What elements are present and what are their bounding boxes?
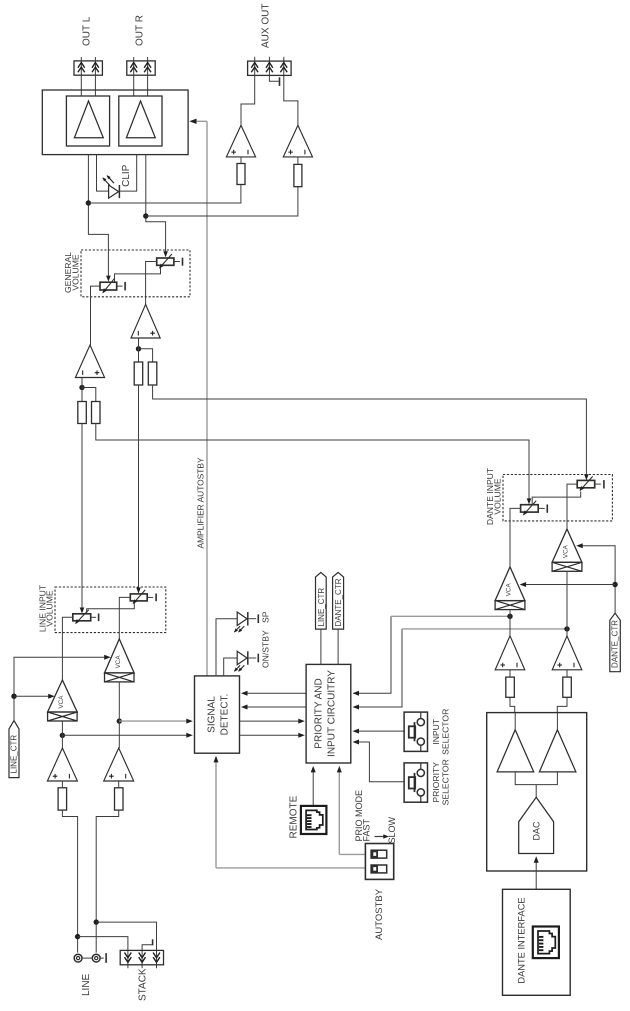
svg-text:AMPLIFIER AUTOSTBY: AMPLIFIER AUTOSTBY	[196, 457, 206, 548]
wire stack pin3	[96, 922, 156, 968]
line input volume group box	[55, 587, 166, 633]
connector LINE jack R	[92, 954, 100, 962]
svg-text:INPUT: INPUT	[431, 718, 441, 745]
pot LV2 terminal	[147, 594, 156, 602]
wire dante to dac	[535, 859, 537, 890]
junction amp R input	[143, 213, 148, 218]
arrow into pot DV1	[527, 498, 532, 504]
arrow vca R ctrl	[104, 655, 111, 660]
wire sum R fb	[139, 338, 153, 362]
connector OUT R	[127, 57, 155, 96]
op-amp aux L	[226, 125, 255, 157]
arrow fast slow	[375, 834, 389, 838]
svg-text:ON/STBY: ON/STBY	[260, 630, 270, 668]
dante volume group box	[503, 475, 612, 521]
op-amp aux R	[283, 125, 312, 157]
wire amp R input	[146, 155, 166, 256]
wire to aux L	[88, 185, 241, 204]
potentiometer LV2	[130, 590, 147, 604]
wire dante L ctrl	[391, 615, 510, 617]
label ONSTBY	[260, 630, 270, 668]
label DANTE INPUT VOLUME	[485, 467, 502, 525]
op-amp sum L	[75, 345, 104, 378]
junction vca R out	[117, 718, 122, 723]
arrow into pot LV2	[136, 588, 141, 594]
arrow into pot DV2	[584, 474, 589, 480]
wire dante fb R	[153, 385, 587, 478]
arrow into pot GV1	[106, 276, 111, 282]
wire pot DV2 out	[567, 484, 577, 529]
arrow into dac	[534, 856, 539, 863]
led CLIP	[102, 175, 119, 198]
power amp block	[42, 90, 188, 155]
flag LINE_CTR	[9, 721, 19, 778]
wire detect to prio 1	[240, 719, 305, 724]
wire pot GV1 out	[91, 286, 101, 345]
switch INPUT SELECTOR	[404, 712, 427, 751]
junction line ctr	[11, 694, 16, 699]
pot DV2 terminal	[595, 480, 604, 488]
pot GV1 terminal	[117, 282, 125, 291]
block DAC	[487, 713, 587, 871]
wire amp L input	[88, 155, 108, 280]
resistor dante L	[506, 677, 515, 697]
arrow into detect 1	[186, 719, 193, 724]
junction dante ctr	[612, 582, 617, 587]
op-amp dante L	[495, 636, 525, 670]
svg-text:VOLUME: VOLUME	[45, 590, 55, 627]
wire sp led	[216, 619, 237, 676]
arrow vca dante L ctrl	[520, 582, 527, 587]
wire dante ctr	[580, 546, 616, 613]
svg-text:DETECT.: DETECT.	[220, 694, 231, 736]
op-amp dante R	[552, 636, 582, 670]
junction sum L fb	[79, 385, 84, 390]
svg-text:SELECTOR: SELECTOR	[440, 709, 450, 755]
flag DANTE_CTR mid	[333, 572, 344, 629]
svg-text:REMOTE: REMOTE	[289, 795, 300, 838]
wire lv link	[87, 603, 135, 614]
resistor sum L a	[78, 402, 87, 424]
arrow into amp block	[189, 119, 196, 124]
wire remote to prio	[312, 769, 314, 806]
label CLIP	[121, 164, 132, 187]
label PRIO MODE	[354, 790, 364, 842]
wire dante L to prio	[353, 616, 392, 696]
label DANTE INTERFACE	[517, 897, 527, 983]
junction vca dante L out	[507, 614, 512, 619]
wire line vol R	[138, 385, 140, 592]
connector LINE jack L	[74, 954, 82, 962]
vca dante R	[552, 529, 582, 571]
wire line ctr b	[14, 695, 52, 697]
svg-text:SIGNAL: SIGNAL	[207, 696, 218, 733]
wire gv link	[115, 268, 161, 283]
junction sum R fb	[136, 346, 141, 351]
label SLOW	[387, 816, 397, 843]
switch PRIORITY SELECTOR	[404, 763, 427, 802]
wire clip led cathode	[120, 155, 137, 192]
potentiometer GV1	[100, 278, 117, 293]
wire pot LV1 out	[62, 617, 72, 680]
svg-text:DANTE INTERFACE: DANTE INTERFACE	[517, 897, 527, 983]
wire vca dante L out	[509, 610, 511, 636]
arrow into detect bottom	[214, 756, 219, 763]
svg-text:DANTE_CTR: DANTE_CTR	[611, 620, 620, 668]
label AMPLIFIER AUTOSTBY	[196, 457, 206, 548]
wire line jacks	[82, 953, 106, 963]
arrow vca dante R ctrl	[576, 543, 583, 548]
op-amp line L	[47, 748, 77, 781]
svg-text:AUTOSTBY: AUTOSTBY	[374, 888, 385, 940]
led SP	[234, 612, 258, 633]
wire stack pin2	[142, 939, 153, 968]
potentiometer DV2	[577, 476, 595, 491]
general volume group box	[81, 250, 190, 297]
wire priority selector	[353, 740, 405, 782]
svg-text:VOLUME: VOLUME	[492, 478, 502, 515]
vca dante L	[495, 567, 525, 610]
wire line L in	[62, 781, 77, 953]
wire dac R	[557, 670, 567, 713]
resistor aux R	[294, 164, 302, 186]
label AUX OUT	[261, 4, 272, 48]
resistor sum R b	[148, 362, 157, 385]
svg-text:DAC: DAC	[532, 821, 542, 841]
wire aux mid terminal	[269, 75, 279, 86]
svg-text:DANTE_CTR: DANTE_CTR	[334, 578, 343, 626]
label SIGNAL DETECT	[207, 694, 231, 736]
svg-text:VCA: VCA	[58, 695, 65, 709]
wire aux L out	[241, 75, 255, 163]
wire dante R to prio	[353, 629, 403, 710]
label INPUT SELECTOR	[431, 709, 451, 755]
connector AUX OUT	[248, 57, 292, 76]
connector STACK	[120, 950, 163, 964]
switch PRIO MODE / AUTOSTBY	[365, 844, 393, 880]
led ONSTBY	[234, 651, 258, 671]
resistor line L	[58, 788, 67, 810]
vca line L	[48, 680, 78, 721]
wire dip to prio	[339, 769, 365, 855]
op-amp line R	[104, 748, 134, 781]
wire aux R out	[284, 75, 298, 164]
flag LINE_CTR mid	[316, 572, 327, 629]
label REMOTE	[289, 795, 300, 838]
jack REMOTE	[301, 806, 327, 834]
svg-text:OUT L: OUT L	[82, 16, 93, 46]
wire line vol L	[81, 424, 83, 612]
resistor sum L b	[92, 402, 101, 424]
flag DANTE_CTR right	[610, 613, 621, 672]
junction line in L	[75, 934, 80, 939]
wire detect to prio 2	[240, 733, 305, 738]
wire dante ctr mid	[337, 629, 339, 664]
svg-text:LINE_CTR: LINE_CTR	[9, 735, 18, 774]
label LINE INPUT VOLUME	[37, 584, 54, 632]
junction amp L input	[86, 200, 91, 205]
svg-text:LINE_CTR: LINE_CTR	[317, 588, 326, 627]
label SP	[260, 611, 270, 623]
wire pot GV2 out	[146, 262, 157, 305]
block SIGNAL DETECT	[195, 676, 240, 753]
block PRIORITY	[306, 664, 351, 763]
arrow into pot LV1	[80, 608, 85, 614]
label OUT L	[82, 16, 93, 46]
label STACK	[137, 968, 148, 1001]
dac buffer L	[497, 713, 534, 772]
wire vca L out	[61, 721, 63, 748]
wire vca R out	[118, 682, 120, 748]
label OUT R	[135, 15, 146, 46]
resistor aux L	[237, 164, 245, 185]
resistor line R	[115, 788, 124, 810]
jack DANTE	[533, 927, 559, 959]
wire line R in	[96, 781, 119, 953]
label LINE	[81, 973, 92, 996]
resistor dante R	[563, 677, 572, 697]
svg-text:VCA: VCA	[115, 655, 122, 669]
svg-text:VOLUME: VOLUME	[70, 254, 80, 291]
svg-text:PRIORITY AND: PRIORITY AND	[314, 678, 325, 748]
arrow vca L ctrl	[48, 694, 55, 699]
wire vca R to detect	[119, 720, 189, 722]
svg-text:INPUT CIRCUITRY: INPUT CIRCUITRY	[327, 670, 338, 757]
wire dv link	[532, 492, 581, 505]
wire vca L to detect	[62, 734, 189, 736]
wire line ctr	[14, 657, 108, 720]
arrow dip	[337, 766, 342, 773]
wire prio to detect 1	[241, 691, 306, 696]
svg-text:VCA: VCA	[563, 544, 570, 558]
wire stack pin1	[78, 937, 128, 969]
op-amp sum R	[131, 304, 160, 338]
svg-text:PRIORITY: PRIORITY	[431, 762, 441, 803]
connector OUT L	[74, 57, 102, 96]
wire dante ctr b	[521, 584, 615, 586]
pot DV1 terminal	[538, 504, 547, 512]
wire input selector	[353, 729, 405, 734]
arrow into detect 2	[186, 733, 193, 738]
svg-text:CLIP: CLIP	[121, 164, 132, 187]
svg-text:SELECTOR: SELECTOR	[440, 759, 450, 805]
junction vca dante R out	[564, 626, 569, 631]
wire amplifier autostby	[196, 121, 207, 676]
wire vca dante R out	[566, 572, 568, 636]
svg-text:OUT R: OUT R	[135, 15, 146, 46]
svg-text:AUX OUT: AUX OUT	[261, 4, 272, 48]
amp channel R	[119, 96, 162, 146]
wire clip led anode	[97, 155, 109, 192]
pot GV2 terminal	[174, 258, 183, 266]
svg-text:SP: SP	[260, 611, 270, 623]
junction line in R	[94, 919, 99, 924]
block DANTE INTERFACE	[503, 889, 571, 995]
label FAST	[362, 818, 372, 841]
wire sum L fb	[82, 378, 96, 402]
svg-text:FAST: FAST	[362, 818, 372, 841]
svg-text:LINE: LINE	[81, 973, 92, 996]
pot LV1 terminal	[91, 614, 99, 622]
wire prio to detect 2	[241, 705, 306, 710]
wire to aux R	[146, 187, 298, 216]
potentiometer GV2	[157, 254, 174, 269]
label PRIORITY	[314, 670, 338, 757]
label PRIORITY SELECTOR	[431, 759, 451, 805]
label GENERAL VOLUME	[63, 252, 80, 293]
wire dac join	[515, 772, 557, 797]
wire dac L	[510, 670, 515, 713]
potentiometer LV1	[73, 610, 91, 624]
potentiometer DV1	[521, 501, 539, 516]
arrow into pot GV2	[163, 251, 168, 257]
label AUTOSTBY	[374, 888, 385, 940]
wire onstby led	[224, 658, 238, 676]
wire line ctr mid	[320, 629, 322, 664]
wire autostby switch to detect	[216, 759, 365, 868]
vca line R	[105, 639, 135, 682]
wire dante R ctrl	[402, 628, 567, 630]
dac buffer R	[539, 713, 576, 772]
svg-text:VCA: VCA	[506, 583, 513, 597]
wire pot LV2 out	[119, 597, 130, 639]
amp channel L	[66, 96, 109, 146]
junction vca L out	[60, 733, 65, 738]
wire pot DV1 out	[510, 508, 521, 567]
resistor sum R a	[134, 362, 143, 385]
arrow remote	[311, 766, 316, 773]
svg-text:SLOW: SLOW	[387, 816, 397, 843]
converter DAC	[519, 797, 554, 853]
svg-text:STACK: STACK	[137, 968, 148, 1001]
wire dante fb L	[96, 424, 529, 503]
